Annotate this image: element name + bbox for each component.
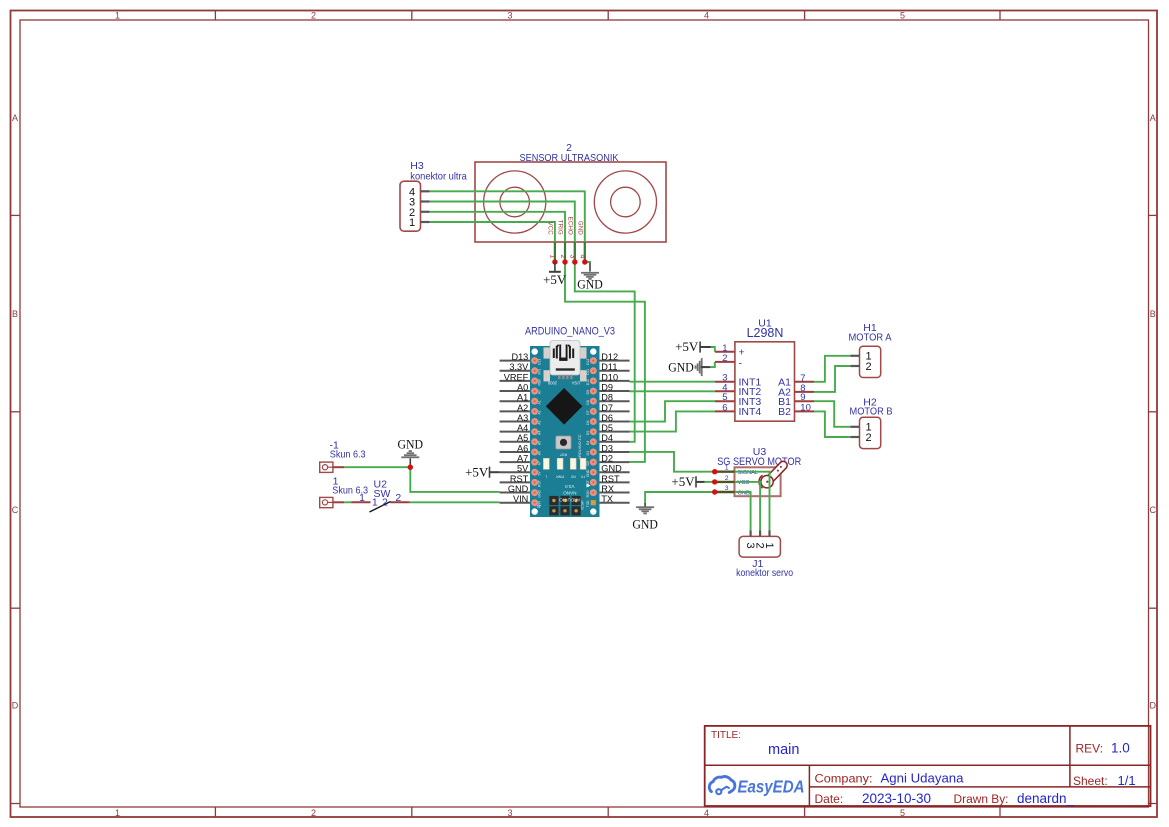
svg-text:D4: D4 bbox=[586, 441, 590, 445]
svg-text:D6: D6 bbox=[601, 413, 613, 423]
ultrasonic sensor module outline bbox=[475, 162, 666, 242]
svg-text:3: 3 bbox=[569, 255, 576, 259]
svg-text:D13: D13 bbox=[511, 352, 528, 362]
svg-text:4: 4 bbox=[704, 10, 709, 20]
svg-text:3: 3 bbox=[725, 485, 729, 492]
svg-text:RX: RX bbox=[570, 475, 575, 479]
svg-text:GND: GND bbox=[508, 484, 529, 494]
power flag +5V at servo VCC bbox=[671, 474, 704, 489]
svg-text:GND: GND bbox=[398, 436, 424, 451]
arduino right pin stubs bbox=[600, 361, 630, 503]
sensor pin numbers 1 2 3 4 bbox=[549, 255, 586, 259]
svg-text:6: 6 bbox=[722, 402, 727, 413]
svg-text:ICSP: ICSP bbox=[580, 500, 585, 510]
op chip U1 L298N box bbox=[735, 342, 795, 421]
wire L298N A1 to H1 pin1 bbox=[814, 356, 850, 382]
svg-text:TITLE:: TITLE: bbox=[711, 730, 741, 741]
wire arduino D5 to L298N INT4 bbox=[630, 411, 715, 431]
svg-text:VREF: VREF bbox=[504, 372, 529, 382]
junction dot GND net bbox=[408, 465, 413, 470]
svg-text:A6: A6 bbox=[538, 451, 542, 455]
svg-text:GND: GND bbox=[577, 277, 603, 292]
svg-text:Company:: Company: bbox=[815, 771, 873, 785]
svg-text:MOTOR A: MOTOR A bbox=[849, 331, 892, 343]
svg-text:GND: GND bbox=[668, 359, 694, 374]
svg-text:L298N: L298N bbox=[747, 326, 784, 340]
svg-text:A: A bbox=[1150, 113, 1156, 123]
wire H3 pin2 to sensor TRIG pin bbox=[430, 212, 566, 262]
EasyEDA logo bbox=[709, 776, 804, 796]
svg-text:USA: USA bbox=[571, 381, 580, 386]
svg-text:REV:: REV: bbox=[1076, 742, 1104, 756]
wire arduino D6 to L298N INT3 bbox=[630, 401, 715, 421]
svg-text:B: B bbox=[1150, 309, 1156, 319]
svg-text:RST: RST bbox=[601, 474, 620, 484]
wire servo VCC through to J1 pin2 bbox=[735, 482, 761, 531]
svg-text:TX: TX bbox=[601, 494, 613, 504]
svg-text:D2: D2 bbox=[601, 454, 613, 464]
svg-text:main: main bbox=[768, 742, 799, 758]
svg-text:2: 2 bbox=[725, 475, 729, 482]
U1 right pin numbers 7 8 9 10 bbox=[800, 373, 811, 414]
svg-text:RST: RST bbox=[538, 480, 542, 487]
svg-text:4: 4 bbox=[704, 808, 709, 818]
svg-text:+5V: +5V bbox=[543, 272, 567, 287]
svg-text:RX: RX bbox=[601, 484, 614, 494]
U1 pin names A1 A2 B1 B2 bbox=[778, 377, 791, 419]
connector Skun 6.3 (-1) bbox=[320, 462, 344, 472]
svg-text:D8: D8 bbox=[586, 400, 590, 404]
svg-text:A3: A3 bbox=[538, 421, 542, 425]
svg-text:3.3V: 3.3V bbox=[509, 362, 529, 372]
arduino right pin name labels bbox=[601, 352, 622, 504]
ground symbol at GND net near skun bbox=[398, 436, 424, 467]
svg-text:5: 5 bbox=[900, 10, 905, 20]
svg-text:2: 2 bbox=[865, 432, 871, 444]
svg-text:denardn_: denardn_ bbox=[1017, 791, 1075, 806]
svg-text:1: 1 bbox=[409, 217, 415, 229]
svg-text:1: 1 bbox=[115, 10, 120, 20]
svg-text:TRIG: TRIG bbox=[557, 220, 564, 235]
sensor right transducer bbox=[594, 171, 656, 233]
arduino nano board bbox=[530, 341, 600, 518]
wire arduino D10 to L298N INT1 bbox=[630, 381, 715, 383]
svg-text:GND: GND bbox=[586, 469, 590, 477]
svg-text:A7: A7 bbox=[517, 454, 528, 464]
svg-text:-: - bbox=[739, 358, 743, 370]
svg-text:3: 3 bbox=[507, 808, 512, 818]
connector H3 konektor ultra bbox=[400, 181, 430, 231]
switch U2 SW bbox=[351, 502, 410, 513]
svg-text:+5V: +5V bbox=[675, 339, 699, 354]
svg-text:TX: TX bbox=[580, 475, 585, 479]
svg-text:ARDUINO_NANO_V3: ARDUINO_NANO_V3 bbox=[525, 326, 615, 338]
svg-text:D7: D7 bbox=[601, 403, 613, 413]
svg-text:D9: D9 bbox=[586, 390, 590, 394]
svg-text:A0: A0 bbox=[538, 390, 542, 394]
svg-text:5V: 5V bbox=[538, 471, 542, 476]
svg-text:GND: GND bbox=[577, 221, 584, 235]
svg-text:ARDUINO.CC: ARDUINO.CC bbox=[577, 434, 582, 459]
svg-text:ECHO: ECHO bbox=[567, 217, 574, 235]
svg-text:D9: D9 bbox=[601, 382, 613, 392]
svg-text:D10: D10 bbox=[601, 372, 618, 382]
H1 pin numbers 1 2 bbox=[865, 351, 871, 373]
svg-text:D: D bbox=[12, 701, 19, 711]
svg-text:SENSOR ULTRASONIK: SENSOR ULTRASONIK bbox=[520, 152, 619, 164]
svg-text:INT4: INT4 bbox=[739, 406, 762, 418]
connector H2 MOTOR B bbox=[850, 417, 880, 448]
svg-text:D5: D5 bbox=[586, 431, 590, 435]
wire L298N A2 to H1 pin2 bbox=[814, 366, 850, 392]
svg-text:1: 1 bbox=[549, 255, 556, 259]
wire servo GND to ground symbol bbox=[645, 492, 715, 503]
svg-text:A5: A5 bbox=[538, 441, 542, 445]
svg-text:SG SERVO MOTOR: SG SERVO MOTOR bbox=[717, 456, 801, 468]
ground symbol under sensor GND pin bbox=[577, 263, 603, 292]
svg-text:RXD: RXD bbox=[586, 490, 590, 498]
svg-text:D7: D7 bbox=[586, 410, 590, 414]
svg-text:A2: A2 bbox=[538, 410, 542, 414]
svg-text:D12: D12 bbox=[586, 359, 590, 365]
svg-text:C: C bbox=[12, 505, 19, 515]
wire servo GND through to J1 pin3 bbox=[735, 492, 751, 531]
svg-text:D13: D13 bbox=[538, 359, 542, 365]
svg-text:RST: RST bbox=[559, 453, 567, 457]
H3 pin numbers 4 3 2 1 bbox=[409, 186, 415, 229]
wire switch pin2 to arduino VIN bbox=[410, 501, 500, 503]
svg-text:konektor ultra: konektor ultra bbox=[410, 170, 467, 182]
junction dots at servo pins bbox=[712, 469, 717, 495]
svg-text:D6: D6 bbox=[586, 420, 590, 424]
svg-text:Date:: Date: bbox=[815, 792, 844, 806]
arduino left pin stubs bbox=[500, 361, 530, 503]
svg-text:RST: RST bbox=[510, 474, 529, 484]
svg-text:2: 2 bbox=[865, 361, 871, 373]
svg-text:GND: GND bbox=[632, 517, 658, 532]
wire skun 1 to switch pin1 bbox=[344, 501, 351, 503]
svg-text:3: 3 bbox=[507, 10, 512, 20]
connector Skun 6.3 (1) bbox=[320, 497, 344, 507]
svg-text:Agni Udayana: Agni Udayana bbox=[881, 770, 965, 785]
svg-text:2: 2 bbox=[382, 497, 388, 509]
svg-text:2: 2 bbox=[395, 492, 401, 504]
svg-text:2: 2 bbox=[311, 10, 316, 20]
svg-text:REF: REF bbox=[538, 379, 542, 386]
svg-text:D3: D3 bbox=[586, 451, 590, 455]
power flag +5V under sensor VCC bbox=[543, 262, 567, 287]
wire H3 pin3 to sensor ECHO pin bbox=[430, 202, 575, 263]
wire H3 pin4 to sensor GND pin bbox=[430, 191, 585, 262]
arduino left pin name labels bbox=[504, 352, 529, 504]
svg-text:1: 1 bbox=[359, 492, 365, 504]
svg-text:+5V: +5V bbox=[671, 474, 695, 489]
wire H3 pin1 to sensor VCC pin bbox=[430, 222, 555, 262]
J1 pin numbers 3 2 1 bbox=[744, 543, 775, 549]
wire arduino D9 to L298N INT2 bbox=[630, 390, 715, 392]
wire sensor TRIG to arduino D2 bbox=[565, 262, 645, 462]
svg-text:A5: A5 bbox=[517, 433, 528, 443]
svg-text:A4: A4 bbox=[517, 423, 528, 433]
power flag +5V at U1 pin1 bbox=[675, 339, 711, 354]
svg-text:D12: D12 bbox=[601, 352, 618, 362]
svg-text:D5: D5 bbox=[601, 423, 613, 433]
ground flag GND at U1 pin2 bbox=[668, 358, 710, 376]
svg-text:A7: A7 bbox=[538, 461, 542, 465]
svg-text:TXD: TXD bbox=[586, 500, 590, 507]
svg-text:1: 1 bbox=[725, 465, 729, 472]
svg-text:2023-10-30: 2023-10-30 bbox=[862, 791, 931, 806]
svg-text:5: 5 bbox=[900, 808, 905, 818]
svg-text:GND: GND bbox=[538, 489, 542, 497]
svg-text:PWR: PWR bbox=[556, 475, 564, 479]
U1 right pin stubs bbox=[795, 382, 815, 412]
svg-text:B: B bbox=[12, 309, 18, 319]
ruler column labels bottom bbox=[115, 808, 905, 818]
wire arduino D3 to servo SIGNAL bbox=[630, 452, 715, 472]
wire sensor GND pin to ground symbol bbox=[585, 262, 590, 263]
title block frame bbox=[705, 726, 1151, 806]
servo horn drawing bbox=[759, 465, 783, 488]
svg-text:1: 1 bbox=[372, 497, 378, 509]
svg-text:D8: D8 bbox=[601, 393, 613, 403]
wire L298N B2 to H2 pin2 bbox=[814, 411, 850, 437]
wire GND net junction to arduino GND bbox=[410, 467, 499, 492]
servo U3 box bbox=[735, 467, 781, 496]
svg-text:D11: D11 bbox=[586, 369, 590, 375]
svg-text:Skun 6.3: Skun 6.3 bbox=[330, 449, 366, 461]
U1 pin names + - INT1..INT4 bbox=[739, 347, 762, 418]
connector H1 MOTOR A bbox=[850, 346, 880, 377]
svg-text:D10: D10 bbox=[586, 379, 590, 385]
svg-text:MOTOR B: MOTOR B bbox=[850, 406, 893, 418]
svg-text:EasyEDA: EasyEDA bbox=[738, 776, 805, 796]
ruler row labels right bbox=[1149, 113, 1156, 711]
svg-text:A1: A1 bbox=[517, 393, 528, 403]
svg-text:5V: 5V bbox=[517, 464, 529, 474]
svg-text:ARDUINO: ARDUINO bbox=[559, 497, 581, 502]
svg-text:1.0: 1.0 bbox=[1111, 741, 1130, 756]
svg-text:GND: GND bbox=[601, 464, 622, 474]
svg-text:2: 2 bbox=[722, 353, 727, 364]
power flag +5V at arduino 5V pin bbox=[465, 464, 500, 479]
svg-text:VCC: VCC bbox=[547, 222, 554, 236]
ground symbol below servo bbox=[632, 503, 658, 532]
svg-text:B2: B2 bbox=[778, 406, 791, 418]
sensor pins VCC TRIG ECHO GND bbox=[547, 217, 585, 262]
junction dots at sensor pins bbox=[552, 259, 587, 264]
svg-text:A6: A6 bbox=[517, 443, 528, 453]
svg-text:konektor servo: konektor servo bbox=[736, 567, 793, 579]
H2 pin numbers 1 2 bbox=[865, 422, 871, 444]
U3 pin names SIGNAL VCC GND bbox=[738, 470, 759, 496]
svg-text:4: 4 bbox=[579, 255, 586, 259]
svg-text:10: 10 bbox=[800, 402, 811, 413]
svg-text:C: C bbox=[1149, 505, 1156, 515]
wire servo SIGNAL through to J1 pin1 bbox=[735, 472, 770, 531]
svg-text:NANO: NANO bbox=[563, 491, 577, 496]
svg-text:Drawn By:: Drawn By: bbox=[954, 794, 1009, 806]
U1 left pin stubs bbox=[715, 352, 735, 412]
wire +5V flag to servo VCC bbox=[705, 481, 715, 483]
ruler column labels top bbox=[115, 10, 905, 20]
svg-text:L: L bbox=[545, 475, 547, 479]
svg-text:2: 2 bbox=[311, 808, 316, 818]
svg-text:Sheet:: Sheet: bbox=[1073, 774, 1108, 788]
svg-text:D2: D2 bbox=[586, 461, 590, 465]
svg-text:A: A bbox=[12, 113, 18, 123]
svg-text:+5V: +5V bbox=[465, 464, 489, 479]
svg-text:1: 1 bbox=[763, 543, 775, 549]
connector J1 konektor servo bbox=[739, 531, 780, 558]
svg-text:A3: A3 bbox=[517, 413, 528, 423]
svg-text:D11: D11 bbox=[601, 362, 617, 372]
wire +5V flag to L298N pin1 bbox=[711, 347, 715, 352]
svg-text:2: 2 bbox=[559, 255, 566, 259]
wire GND flag to L298N pin2 bbox=[710, 362, 715, 367]
wire skun -1 to GND net junction bbox=[344, 466, 410, 468]
wire sensor ECHO to arduino D4 bbox=[575, 262, 635, 442]
svg-text:A2: A2 bbox=[517, 403, 528, 413]
svg-text:1: 1 bbox=[115, 808, 120, 818]
svg-text:A0: A0 bbox=[517, 382, 528, 392]
svg-text:D: D bbox=[1149, 701, 1156, 711]
svg-text:2009: 2009 bbox=[547, 381, 557, 386]
svg-text:D4: D4 bbox=[601, 433, 613, 443]
svg-text:D3: D3 bbox=[601, 443, 613, 453]
svg-text:VIN: VIN bbox=[513, 494, 528, 504]
svg-text:3V3: 3V3 bbox=[538, 369, 542, 375]
U1 left pin numbers 1 2 3 4 5 6 bbox=[722, 343, 727, 414]
U3 pin numbers 1 2 3 bbox=[725, 465, 729, 492]
wire L298N B1 to H2 pin1 bbox=[814, 401, 850, 427]
svg-text:V3.0: V3.0 bbox=[565, 484, 575, 489]
ruler row labels left bbox=[12, 113, 19, 711]
svg-text:J1: J1 bbox=[536, 504, 541, 509]
svg-text:A4: A4 bbox=[538, 431, 542, 435]
sensor left transducer bbox=[484, 171, 546, 233]
svg-text:1/1: 1/1 bbox=[1118, 773, 1136, 788]
svg-text:A1: A1 bbox=[538, 400, 542, 404]
U3 pin stubs bbox=[715, 472, 735, 492]
